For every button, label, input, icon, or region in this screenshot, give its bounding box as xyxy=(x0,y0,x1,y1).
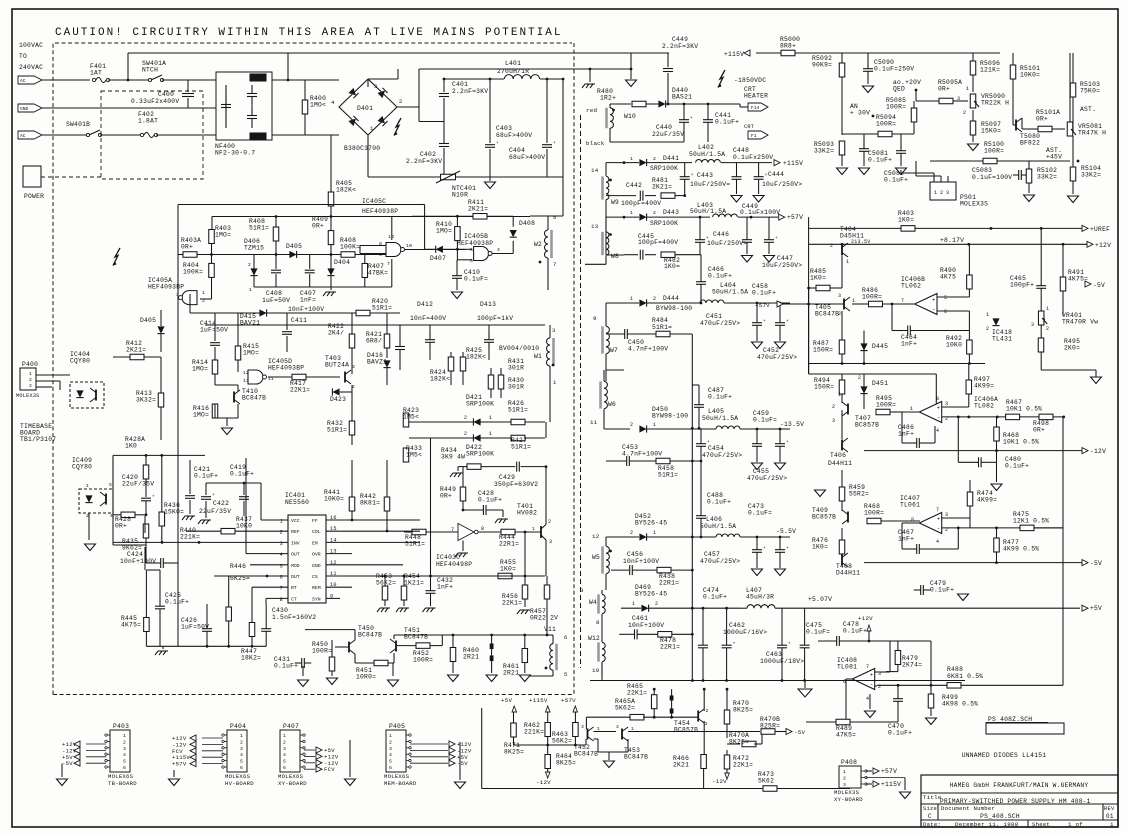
svg-text:68uF>400V: 68uF>400V xyxy=(509,154,545,161)
svg-text:D405: D405 xyxy=(140,317,156,324)
resistor R434 3K9 4W xyxy=(467,464,481,470)
svg-text:+115V: +115V xyxy=(529,697,548,704)
svg-text:12: 12 xyxy=(592,533,600,540)
capacitor C463 xyxy=(777,644,787,646)
svg-text:0.1uF+: 0.1uF+ xyxy=(1005,463,1029,470)
svg-text:D408: D408 xyxy=(519,220,535,227)
svg-text:1: 1 xyxy=(630,156,633,162)
svg-text:2: 2 xyxy=(653,156,656,162)
svg-text:-5V: -5V xyxy=(457,760,468,767)
capacitor C453 xyxy=(626,456,628,466)
svg-text:0.1uF=: 0.1uF= xyxy=(464,276,488,283)
svg-text:0R+: 0R+ xyxy=(938,86,950,93)
svg-text:D401: D401 xyxy=(357,105,373,112)
svg-text:C461: C461 xyxy=(632,615,648,622)
inductor L406 xyxy=(716,534,740,537)
svg-text:100VAC: 100VAC xyxy=(19,42,43,49)
resistor R470B xyxy=(761,729,775,735)
svg-text:3: 3 xyxy=(580,587,584,594)
svg-text:3: 3 xyxy=(123,746,126,752)
svg-text:10K0: 10K0 xyxy=(236,523,252,530)
wire bridge to rails xyxy=(367,79,369,87)
svg-text:-12V: -12V xyxy=(712,778,727,785)
svg-text:1: 1 xyxy=(653,422,656,428)
svg-text:0.1uF+: 0.1uF+ xyxy=(868,157,892,164)
svg-text:D404: D404 xyxy=(334,259,350,266)
resistor R448 xyxy=(412,529,426,535)
resistor R425 xyxy=(460,357,466,371)
rail mid 2 xyxy=(809,373,937,375)
svg-text:22uF/35V: 22uF/35V xyxy=(199,508,231,515)
svg-text:100R=: 100R= xyxy=(862,294,882,301)
connector pod AC (top) xyxy=(18,76,42,84)
svg-text:470uF/25V>: 470uF/25V> xyxy=(702,452,742,459)
svg-text:BC847B: BC847B xyxy=(574,751,598,758)
svg-text:1K0=: 1K0= xyxy=(812,544,828,551)
svg-text:R484: R484 xyxy=(652,317,668,324)
ground xyxy=(298,680,309,687)
ground xyxy=(327,678,338,685)
resistor R454 xyxy=(401,586,407,600)
svg-text:2: 2 xyxy=(655,601,658,607)
potentiometer VR401 xyxy=(1038,311,1044,325)
svg-text:TR47K H: TR47K H xyxy=(1078,130,1106,137)
wire long bottom xyxy=(482,788,763,790)
wire vertical xyxy=(671,689,673,717)
svg-text:0.33uF2x400V: 0.33uF2x400V xyxy=(131,98,179,105)
ground triangle xyxy=(630,69,632,79)
port -5V small xyxy=(1085,281,1091,287)
resistor R5094 xyxy=(878,131,892,137)
svg-text:C442: C442 xyxy=(626,182,642,189)
svg-text:+45V: +45V xyxy=(1046,154,1062,161)
port -5V xyxy=(786,729,792,735)
resistor R492 xyxy=(967,340,973,354)
capacitor C430 xyxy=(261,628,271,630)
wire rail left vertical xyxy=(808,217,810,374)
pod CRT F1 xyxy=(748,131,768,139)
svg-text:4K99=: 4K99= xyxy=(974,383,994,390)
svg-text:AC: AC xyxy=(20,78,26,84)
svg-text:1: 1 xyxy=(653,530,656,536)
svg-text:3: 3 xyxy=(945,401,948,407)
svg-text:C411: C411 xyxy=(291,317,307,324)
svg-text:1uF=50V: 1uF=50V xyxy=(181,624,209,631)
svg-text:HAMEG GmbH FRANKFURT/MAIN W.GE: HAMEG GmbH FRANKFURT/MAIN W.GERMANY xyxy=(950,782,1089,789)
svg-text:51R1=: 51R1= xyxy=(327,427,347,434)
capacitor C5082 xyxy=(896,150,906,152)
svg-text:IC403C: IC403C xyxy=(436,554,460,561)
svg-text:5: 5 xyxy=(944,295,947,301)
resistor R5093 xyxy=(839,141,845,155)
svg-text:470uF/25V>: 470uF/25V> xyxy=(747,475,787,482)
svg-text:SW401B: SW401B xyxy=(66,121,90,128)
svg-text:2: 2 xyxy=(548,519,551,525)
wire W8 bottom xyxy=(605,256,607,265)
svg-text:4K75: 4K75 xyxy=(940,274,956,281)
svg-text:+: + xyxy=(733,642,736,647)
svg-text:1K0=: 1K0= xyxy=(810,275,826,282)
svg-text:7: 7 xyxy=(866,664,869,670)
svg-text:-1850VDC: -1850VDC xyxy=(734,77,766,84)
svg-text:W5: W5 xyxy=(592,554,600,561)
capacitor C444 xyxy=(754,176,764,178)
svg-text:OVR: OVR xyxy=(312,552,321,558)
svg-text:FCV: FCV xyxy=(324,766,335,773)
svg-text:50uH/1.5A: 50uH/1.5A xyxy=(712,289,748,296)
svg-text:4: 4 xyxy=(283,752,286,758)
bridge rectifier D401 B380C3700 xyxy=(339,79,397,135)
diode D440 BAS21 xyxy=(658,100,665,107)
resistor R5103 xyxy=(1070,83,1076,97)
svg-text:MOLEX6S: MOLEX6S xyxy=(384,773,410,780)
diode D469 BY526-45 xyxy=(641,605,648,612)
resistor R487 xyxy=(839,340,845,354)
svg-text:F1: F1 xyxy=(751,133,757,139)
svg-text:MOLEX6S: MOLEX6S xyxy=(278,773,304,780)
svg-text:4.7nF+100V: 4.7nF+100V xyxy=(622,451,662,458)
svg-text:C446: C446 xyxy=(713,231,729,238)
svg-text:51R1=: 51R1= xyxy=(372,305,392,312)
diode D416 BAV21 xyxy=(383,360,390,367)
transistor T452 BC847B xyxy=(587,729,589,740)
resistor R415 xyxy=(235,346,241,360)
svg-text:2: 2 xyxy=(630,422,633,428)
wire R465A row xyxy=(585,717,587,729)
svg-text:+: + xyxy=(152,495,155,500)
svg-text:3: 3 xyxy=(581,724,584,730)
svg-text:L402: L402 xyxy=(698,144,714,151)
resistor R444 xyxy=(501,529,515,535)
svg-text:100R=: 100R= xyxy=(876,402,896,409)
svg-text:0.1uF=250V: 0.1uF=250V xyxy=(874,66,914,73)
svg-text:3: 3 xyxy=(616,724,619,730)
svg-text:0.1uF+: 0.1uF+ xyxy=(707,499,731,506)
svg-text:W1: W1 xyxy=(534,353,542,360)
capacitor C456 xyxy=(629,565,631,575)
svg-text:-12V: -12V xyxy=(1090,448,1106,455)
svg-text:0.1uF+: 0.1uF+ xyxy=(843,628,867,635)
wire rail y483 xyxy=(206,482,261,484)
svg-text:+: + xyxy=(763,319,766,324)
svg-text:50uH/1.5A: 50uH/1.5A xyxy=(690,208,726,215)
svg-text:10uF/250V=: 10uF/250V= xyxy=(690,181,730,188)
capacitor C429 xyxy=(516,462,518,472)
svg-text:4K75=: 4K75= xyxy=(121,622,141,629)
svg-text:3: 3 xyxy=(1031,322,1034,328)
capacitor C5090 xyxy=(863,68,873,70)
rail xyxy=(409,421,545,423)
resistor R471 xyxy=(511,723,517,737)
svg-text:1.5nF=160V2: 1.5nF=160V2 xyxy=(272,614,316,621)
resistor R450 xyxy=(329,657,335,671)
svg-text:0.1uFx250V: 0.1uFx250V xyxy=(733,154,773,161)
inductor L403 xyxy=(713,214,738,217)
svg-text:1: 1 xyxy=(532,526,535,532)
resistor R468 xyxy=(994,427,1000,441)
NAND gate IC405A xyxy=(182,291,197,305)
svg-text:1K0=: 1K0= xyxy=(664,263,680,270)
svg-text:D413: D413 xyxy=(480,301,496,308)
transistor T408 D44H11 xyxy=(841,555,843,566)
svg-text:1000uF/18V>: 1000uF/18V> xyxy=(760,658,804,665)
svg-text:3: 3 xyxy=(29,383,32,389)
svg-text:C451: C451 xyxy=(706,313,722,320)
svg-text:8K25=: 8K25= xyxy=(733,707,753,714)
svg-text:2R21: 2R21 xyxy=(463,654,479,661)
IC407 TL061 opamp xyxy=(919,513,941,534)
svg-text:2: 2 xyxy=(963,110,966,116)
junction dot xyxy=(539,261,542,264)
winding W12 xyxy=(602,642,605,661)
wire xyxy=(418,105,420,122)
svg-text:3: 3 xyxy=(240,746,243,752)
port +UREF xyxy=(809,227,901,229)
svg-text:C444: C444 xyxy=(768,171,784,178)
svg-text:6: 6 xyxy=(123,765,126,771)
wire neutral top rail xyxy=(128,52,669,54)
svg-text:10K0=: 10K0= xyxy=(1020,72,1040,79)
connector pod GND xyxy=(18,104,42,112)
capacitor C479 xyxy=(920,585,922,595)
svg-text:N10R: N10R xyxy=(452,192,468,199)
svg-text:Size: Size xyxy=(923,806,937,812)
resistor R445 xyxy=(144,618,150,632)
svg-text:+8.17V: +8.17V xyxy=(940,237,964,244)
svg-text:1AT: 1AT xyxy=(90,70,102,77)
svg-text:1000uF/16V>: 1000uF/16V> xyxy=(723,629,767,636)
svg-text:1 of: 1 of xyxy=(1068,821,1083,828)
port +5V right xyxy=(1082,605,1088,611)
svg-text:0.1uF+: 0.1uF+ xyxy=(884,177,908,184)
svg-text:-12V: -12V xyxy=(536,779,551,786)
svg-text:BY526-45: BY526-45 xyxy=(635,591,667,598)
svg-text:2: 2 xyxy=(248,262,251,268)
svg-text:+5.07V: +5.07V xyxy=(808,596,832,603)
svg-text:3: 3 xyxy=(280,541,283,547)
svg-text:13: 13 xyxy=(243,378,249,384)
capacitor C450 xyxy=(624,329,626,339)
svg-text:5: 5 xyxy=(553,214,557,221)
svg-text:Date:: Date: xyxy=(923,821,941,828)
svg-text:150R=: 150R= xyxy=(814,384,834,391)
svg-text:0.1uF+: 0.1uF+ xyxy=(194,473,218,480)
wire pin6 DUT xyxy=(267,575,288,577)
svg-text:MOLEX3S: MOLEX3S xyxy=(834,789,860,796)
svg-text:C401: C401 xyxy=(452,81,468,88)
ground triangle xyxy=(85,544,96,551)
resistor R490 xyxy=(967,275,973,289)
svg-text:UNNAMED DIODES LL4151: UNNAMED DIODES LL4151 xyxy=(962,752,1047,759)
wire xyxy=(112,458,114,545)
transistor T406 D44H11 xyxy=(841,440,843,451)
svg-text:2: 2 xyxy=(986,326,989,332)
diode D407 xyxy=(436,246,443,253)
svg-text:R446: R446 xyxy=(230,563,246,570)
svg-text:100R=: 100R= xyxy=(864,510,884,517)
svg-text:3: 3 xyxy=(705,721,708,727)
P403 ground xyxy=(61,764,63,777)
svg-text:BC847B: BC847B xyxy=(815,311,839,318)
svg-text:8: 8 xyxy=(379,241,382,247)
svg-text:6: 6 xyxy=(470,258,473,264)
svg-text:NF2-30-0.7: NF2-30-0.7 xyxy=(215,150,255,157)
inductor L407 xyxy=(747,605,775,609)
capacitor C446 xyxy=(695,239,705,241)
resistor R424 xyxy=(448,357,454,371)
svg-text:301R: 301R xyxy=(508,384,524,391)
svg-text:47BK=: 47BK= xyxy=(368,270,388,277)
svg-text:5: 5 xyxy=(280,563,283,569)
svg-text:10K0=: 10K0= xyxy=(324,496,344,503)
svg-text:AST.: AST. xyxy=(1080,106,1096,113)
port -12V xyxy=(864,450,1082,452)
svg-text:1 2 3: 1 2 3 xyxy=(934,190,949,196)
svg-text:AC: AC xyxy=(20,133,26,139)
svg-text:3: 3 xyxy=(838,293,841,299)
svg-text:HEF4093BP: HEF4093BP xyxy=(268,365,304,372)
svg-text:100pF=400V: 100pF=400V xyxy=(621,200,661,207)
svg-text:2: 2 xyxy=(630,530,633,536)
svg-text:GND: GND xyxy=(312,563,321,569)
svg-text:5: 5 xyxy=(283,759,286,765)
svg-text:4: 4 xyxy=(331,99,335,106)
svg-text:BC857B: BC857B xyxy=(812,514,836,521)
svg-text:W4: W4 xyxy=(589,599,597,606)
svg-text:5K62: 5K62 xyxy=(758,778,774,785)
svg-text:BF822: BF822 xyxy=(1020,140,1040,147)
capacitor C487 xyxy=(694,404,704,406)
resistor R437 xyxy=(221,528,235,534)
resistor R478 xyxy=(658,632,672,638)
capacitor D413 snubber xyxy=(484,339,494,341)
svg-text:51R1=: 51R1= xyxy=(249,225,269,232)
resistor R472 xyxy=(724,755,730,769)
svg-text:+115V: +115V xyxy=(724,51,744,58)
svg-text:1: 1 xyxy=(630,296,633,302)
capacitor C411 xyxy=(282,331,292,333)
capacitor C478 xyxy=(836,636,838,646)
NAND gate IC405B xyxy=(474,247,489,261)
svg-text:QED: QED xyxy=(893,86,905,93)
svg-text:0.1uFx100V: 0.1uFx100V xyxy=(740,209,780,216)
svg-text:51R1=: 51R1= xyxy=(508,407,528,414)
resistor R404 xyxy=(209,263,215,277)
ground triangle main xyxy=(804,681,806,689)
svg-text:7: 7 xyxy=(387,261,390,267)
svg-text:2K0=: 2K0= xyxy=(1064,345,1080,352)
resistor R460 xyxy=(450,648,456,662)
P404 ground xyxy=(173,770,175,777)
resistor R403 xyxy=(209,230,215,244)
svg-text:REV: REV xyxy=(1104,806,1115,812)
svg-text:1: 1 xyxy=(910,406,913,412)
svg-text:0.1uF+: 0.1uF+ xyxy=(478,497,502,504)
wire xyxy=(162,79,216,81)
svg-text:+: + xyxy=(786,440,789,445)
inverter T401 drive xyxy=(458,524,474,541)
svg-text:2.2nF=3KV: 2.2nF=3KV xyxy=(452,88,488,95)
resistor R420 xyxy=(356,310,370,316)
svg-text:2: 2 xyxy=(29,377,32,383)
svg-text:C456: C456 xyxy=(627,551,643,558)
svg-text:2K21=: 2K21= xyxy=(126,347,146,354)
transistor T403 BUT24A xyxy=(344,372,346,383)
svg-text:CRT: CRT xyxy=(744,124,754,130)
wire left vertical xyxy=(808,288,810,374)
fuse F401 xyxy=(92,78,95,81)
svg-text:100pF=1kV: 100pF=1kV xyxy=(477,315,513,322)
svg-text:TL062: TL062 xyxy=(901,283,921,290)
port -12V down xyxy=(546,772,551,778)
resistor R442 xyxy=(384,497,390,511)
resistor R436 xyxy=(159,512,165,526)
wires to PS01 xyxy=(900,170,902,173)
resistor R468b xyxy=(867,518,881,524)
svg-text:BAS21: BAS21 xyxy=(672,94,692,101)
ground under T452/T453 xyxy=(594,738,599,740)
resistor R411 xyxy=(473,214,487,220)
svg-text:DUT: DUT xyxy=(291,574,300,580)
resistor R459 xyxy=(839,487,845,501)
resistor R408 xyxy=(273,227,279,241)
svg-text:221K=: 221K= xyxy=(180,534,200,541)
svg-text:IC405B: IC405B xyxy=(464,233,488,240)
svg-text:8: 8 xyxy=(936,396,939,402)
transformer core dashed line xyxy=(580,115,582,668)
svg-text:C424: C424 xyxy=(127,551,143,558)
capacitor C5083 xyxy=(1018,170,1020,180)
svg-text:8R8+: 8R8+ xyxy=(780,43,796,50)
svg-text:10K1 0.5%: 10K1 0.5% xyxy=(1003,439,1039,446)
svg-text:HEF40498P: HEF40498P xyxy=(436,561,472,568)
svg-text:22K1=: 22K1= xyxy=(733,762,753,769)
svg-text:2: 2 xyxy=(653,296,656,302)
capacitor C404 xyxy=(542,144,552,146)
svg-text:C443: C443 xyxy=(697,172,713,179)
wire xyxy=(156,134,216,136)
svg-text:+115V: +115V xyxy=(783,160,803,167)
svg-text:1.8AT: 1.8AT xyxy=(138,118,158,125)
resistor R422 xyxy=(349,334,355,348)
winding W11 xyxy=(550,644,553,670)
svg-text:0.1uF+: 0.1uF+ xyxy=(888,730,912,737)
svg-text:1: 1 xyxy=(489,415,492,421)
resistor R495 100R xyxy=(876,409,890,415)
svg-text:CS: CS xyxy=(312,574,318,580)
svg-text:1uF=50V: 1uF=50V xyxy=(262,297,290,304)
svg-text:REM: REM xyxy=(312,585,321,591)
resistor R480 xyxy=(632,101,646,107)
svg-text:2K4/: 2K4/ xyxy=(328,330,344,337)
capacitor C448 xyxy=(732,176,742,178)
svg-text:W12: W12 xyxy=(588,635,600,642)
resistor R441 xyxy=(349,497,355,511)
wire pin3 INV xyxy=(113,541,288,543)
svg-text:1: 1 xyxy=(553,379,557,386)
svg-text:+57V: +57V xyxy=(755,302,770,309)
svg-text:MOLEX6S: MOLEX6S xyxy=(225,773,251,780)
ground row xyxy=(254,286,392,288)
lightning symbol xyxy=(113,248,120,266)
svg-text:C463: C463 xyxy=(766,651,782,658)
resistor R430 xyxy=(498,375,504,389)
svg-text:1MO=: 1MO= xyxy=(436,228,452,235)
svg-text:470uF/25V>: 470uF/25V> xyxy=(757,354,797,361)
svg-text:MOLEX6S: MOLEX6S xyxy=(108,773,134,780)
resistor R466 xyxy=(701,755,707,769)
svg-text:100R=: 100R= xyxy=(312,648,332,655)
